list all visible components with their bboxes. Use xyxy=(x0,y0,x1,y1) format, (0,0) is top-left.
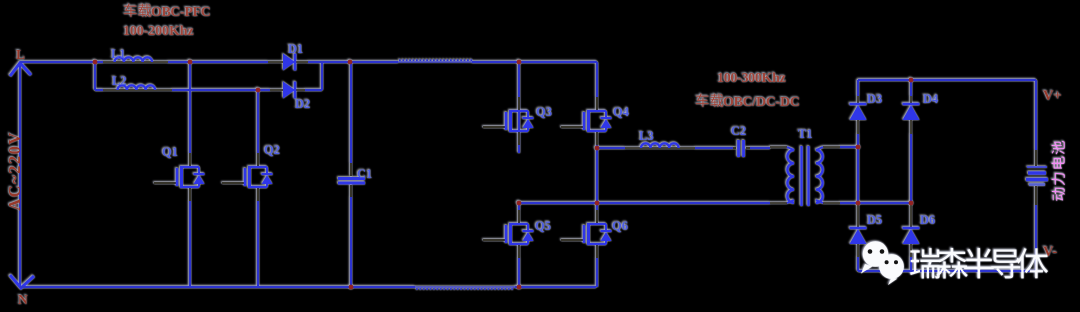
svg-text:T1: T1 xyxy=(798,127,813,141)
transistor Q5 xyxy=(483,210,551,258)
svg-text:D4: D4 xyxy=(923,92,939,106)
wire: rectifier right column x=911 xyxy=(910,80,912,271)
svg-text:N: N xyxy=(18,292,28,307)
wire: L2 branch vertical x=95 xyxy=(94,62,96,90)
inductor L3 xyxy=(625,129,695,148)
wire: bottom bus y=287 xyxy=(20,287,596,289)
terminal L (AC line input arrow) xyxy=(10,47,31,76)
diode D4 xyxy=(903,92,940,134)
node: bottom bus / bridge left xyxy=(517,285,522,290)
svg-text:Q4: Q4 xyxy=(613,105,630,119)
node: bottom bus / C1 xyxy=(349,285,354,290)
svg-text:Q1: Q1 xyxy=(162,145,178,159)
svg-text:D5: D5 xyxy=(867,213,882,227)
diode D6 xyxy=(903,203,936,257)
svg-text:C2: C2 xyxy=(731,124,746,138)
node: secondary bottom / right column xyxy=(909,201,914,206)
power V+ xyxy=(1043,88,1062,104)
svg-text:D6: D6 xyxy=(920,213,935,227)
diode D1 xyxy=(268,42,308,71)
wire: output top bus y=80 xyxy=(858,79,1036,81)
wire: D1/D2 cathode join vertical x=322 xyxy=(321,62,323,90)
inductor L2 xyxy=(103,74,172,90)
svg-text:L2: L2 xyxy=(112,74,127,88)
svg-text:Q2: Q2 xyxy=(264,143,280,157)
power V- xyxy=(1043,244,1057,260)
net label 动力电池 (pink, rotated) xyxy=(1052,141,1065,201)
transistor Q6 xyxy=(561,210,628,258)
node: top bus / C1 xyxy=(348,60,353,65)
node: mid rail right xyxy=(595,201,600,206)
svg-text:100-200Khz: 100-200Khz xyxy=(123,24,194,39)
svg-text:Q5: Q5 xyxy=(535,219,551,233)
svg-text:V-: V- xyxy=(1043,244,1057,260)
svg-text:AC~220V: AC~220V xyxy=(5,131,24,211)
svg-text:OBC-PFC: OBC-PFC xyxy=(151,5,211,20)
svg-text:100-300Khz: 100-300Khz xyxy=(717,71,786,86)
svg-text:C1: C1 xyxy=(357,167,372,181)
diode D5 xyxy=(850,203,883,257)
transformer T1 xyxy=(770,127,840,206)
annotation: 车载OBC/DC-DC xyxy=(696,94,800,110)
svg-text:OBC/DC-DC: OBC/DC-DC xyxy=(723,95,800,110)
wire: secondary bottom y=202 xyxy=(840,202,911,204)
wire: Q2 drain/source branch x=258 xyxy=(257,90,259,287)
node: output top bus / D4 xyxy=(909,78,914,83)
svg-text:D1: D1 xyxy=(288,42,303,56)
transistor Q2 xyxy=(222,143,280,201)
node: top bus / L2 branch xyxy=(93,60,98,65)
wire: secondary top y=147 xyxy=(840,146,858,148)
node: secondary bottom / left column xyxy=(856,201,861,206)
transistor Q4 xyxy=(561,97,630,145)
terminal N (AC neutral arrow) xyxy=(10,275,34,307)
diode D3 xyxy=(850,92,883,134)
svg-text:D3: D3 xyxy=(867,92,882,106)
wire: left AC vertical xyxy=(19,62,21,287)
diode D2 xyxy=(270,82,310,112)
watermark: 瑞森半导体 xyxy=(910,248,1048,278)
wire: top bus y=62 xyxy=(20,60,597,62)
wire: L2 row y=90 xyxy=(95,89,322,91)
node: resonant tap xyxy=(595,146,600,151)
battery BT (output) xyxy=(1026,167,1048,185)
svg-text:Q6: Q6 xyxy=(612,219,628,233)
node: L2 row / Q2 xyxy=(256,88,261,93)
annotation: 100-300Khz xyxy=(717,71,786,86)
annotation: 车载OBC-PFC xyxy=(124,4,211,20)
svg-text:L3: L3 xyxy=(639,129,654,143)
wire: Q1 drain/source branch x=190 xyxy=(189,62,191,287)
wire: bridge left leg x=519 xyxy=(518,62,520,287)
node: secondary top / left column xyxy=(856,145,861,150)
svg-text:D2: D2 xyxy=(295,97,310,111)
wire: bridge right leg x=597 xyxy=(596,62,598,287)
node: top bus / bridge left xyxy=(517,60,522,65)
wire: output bottom bus y=271 xyxy=(858,270,1036,272)
capacitor C1 xyxy=(338,163,372,197)
transistor Q1 xyxy=(154,145,205,201)
annotation: 100-200Khz xyxy=(123,24,194,39)
wire: rectifier left column x=858 xyxy=(857,80,859,271)
node: mid rail left xyxy=(517,201,522,206)
node: top bus / Q1 xyxy=(188,60,193,65)
capacitor C2 xyxy=(731,124,750,157)
watermark: WeChat logo xyxy=(861,241,904,285)
svg-text:L1: L1 xyxy=(111,47,126,61)
svg-text:Q3: Q3 xyxy=(536,105,552,119)
net label AC~220V xyxy=(5,131,24,211)
transistor Q3 xyxy=(483,97,552,145)
inductor L1 xyxy=(103,47,168,62)
wire: C1 column x=351 xyxy=(350,62,352,287)
wire: output right vertical x=1036 xyxy=(1035,80,1037,271)
wire: bridge mid rail y=203 xyxy=(519,202,770,204)
svg-text:L: L xyxy=(16,47,25,62)
wire: resonant row y=148 xyxy=(597,147,770,149)
svg-text:V+: V+ xyxy=(1043,88,1062,104)
